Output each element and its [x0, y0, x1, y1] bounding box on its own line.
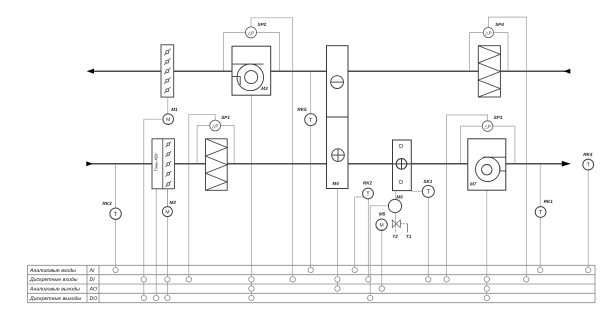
- node AI RK3: [113, 267, 118, 272]
- svg-text:RK4: RK4: [583, 152, 593, 157]
- node AO M4: [335, 286, 340, 291]
- wire RK3 drop: [115, 164, 117, 268]
- node DI RK2: [366, 277, 371, 282]
- svg-text:T2: T2: [392, 234, 398, 239]
- node DO heater: [154, 295, 159, 300]
- wire M6 to valve: [395, 213, 397, 233]
- node DO M2: [165, 295, 170, 300]
- wire M2 drop: [166, 189, 168, 295]
- node DI M1: [141, 277, 146, 282]
- arrow supply outlet (right): [562, 161, 571, 167]
- node DI SP1: [186, 277, 191, 282]
- node DI M3: [249, 277, 254, 282]
- svg-text:AO: AO: [89, 286, 98, 292]
- node DI M4: [335, 277, 340, 282]
- wire RK2 left: [355, 197, 364, 267]
- bus AI/DI divider: [28, 274, 596, 276]
- svg-text:△P: △P: [485, 31, 492, 36]
- filter exhaust: [478, 46, 500, 97]
- sensor SP1: [210, 115, 231, 131]
- svg-text:△P: △P: [212, 123, 219, 128]
- node DO M6: [368, 295, 373, 300]
- heater Тэны КВУ: [152, 139, 174, 189]
- svg-text:RK5: RK5: [297, 107, 307, 112]
- wire M3 drop: [250, 95, 252, 295]
- wire heater to M2: [166, 189, 168, 207]
- svg-text:RK3: RK3: [102, 201, 112, 206]
- node DO M3: [249, 295, 254, 300]
- bus DI/AO divider: [28, 283, 596, 285]
- svg-text:T: T: [309, 117, 313, 124]
- wire SP4 signal: [488, 17, 526, 277]
- sensor SP3: [482, 115, 502, 131]
- svg-text:Дискретные входы: Дискретные входы: [29, 277, 78, 283]
- sensor RK4: [583, 152, 594, 170]
- fan M7: [468, 139, 506, 190]
- wire M5 drop: [381, 230, 383, 286]
- bus DO bottom border: [28, 302, 596, 304]
- svg-text:SP2: SP2: [258, 22, 267, 27]
- node DI M2: [165, 277, 170, 282]
- arrow exhaust outlet (left): [87, 69, 94, 74]
- svg-text:T: T: [366, 192, 370, 198]
- wire RK1 drop: [539, 164, 541, 268]
- node AI RK4: [586, 267, 591, 272]
- node DI SP2: [290, 277, 295, 282]
- node AO M3: [249, 286, 254, 291]
- sensor RK3: [102, 201, 121, 219]
- wire RK2 drop: [367, 199, 369, 277]
- svg-text:T: T: [586, 163, 590, 169]
- svg-text:RK1: RK1: [544, 199, 554, 204]
- svg-text:T1: T1: [406, 234, 412, 239]
- node AO M7: [484, 286, 489, 291]
- svg-text:M5: M5: [379, 211, 386, 216]
- svg-text:DI: DI: [90, 277, 96, 283]
- sensor RK1: [535, 199, 553, 218]
- node DO M7: [484, 295, 489, 300]
- node DO M1: [141, 295, 146, 300]
- node DI SP3: [444, 277, 449, 282]
- svg-text:SP4: SP4: [495, 22, 504, 27]
- filter supply: [206, 139, 228, 191]
- arrow exhaust inlet (right): [564, 69, 571, 74]
- motor M1: [163, 107, 178, 126]
- table right border: [594, 265, 596, 302]
- wire SP1 signal: [189, 114, 215, 276]
- node AI RK1: [538, 267, 543, 272]
- svg-text:DO: DO: [90, 296, 98, 302]
- sensor SP4: [483, 22, 504, 38]
- sensor RK5: [297, 107, 316, 126]
- svg-text:M2: M2: [170, 200, 177, 205]
- svg-text:Тэны КВУ: Тэны КВУ: [153, 151, 158, 171]
- heat coil / valve body: [393, 140, 412, 191]
- wire SP2 left tap: [224, 32, 246, 71]
- wire M1 horizontal+drop: [144, 119, 163, 295]
- svg-text:M1: M1: [171, 107, 178, 112]
- svg-text:T: T: [426, 189, 430, 196]
- svg-text:T: T: [539, 210, 543, 216]
- table abbr divider: [98, 265, 100, 302]
- wire M7 drop: [486, 190, 488, 295]
- motor M2: [162, 200, 176, 218]
- node AO M5: [379, 286, 384, 291]
- wire SP4 right tap: [494, 33, 509, 72]
- valve 3-way: [392, 220, 407, 233]
- node DI SP4: [524, 277, 529, 282]
- svg-text:AI: AI: [89, 268, 95, 274]
- wire RK4 drop: [587, 170, 589, 267]
- wire M4 drop: [336, 189, 338, 286]
- table label divider: [86, 265, 88, 302]
- wire supply duct: [88, 163, 563, 165]
- svg-text:△P: △P: [484, 124, 491, 129]
- node AI RK2: [352, 267, 357, 272]
- svg-text:△P: △P: [248, 30, 255, 35]
- pump M5: [376, 211, 387, 231]
- svg-text:M7: M7: [470, 181, 477, 186]
- wire SP2 right tap: [257, 32, 280, 71]
- wire exhaust duct: [90, 70, 570, 72]
- table left border: [27, 265, 29, 302]
- wire RK5 drop: [310, 71, 312, 267]
- wire M6 left: [370, 206, 388, 295]
- wire SP3 signal: [447, 115, 488, 277]
- sensor RK2: [363, 181, 374, 199]
- wire SP4 left tap: [470, 33, 484, 72]
- arrow supply inlet (left): [86, 161, 92, 166]
- wire valve to M6: [395, 191, 397, 200]
- node AI RK5: [308, 267, 313, 272]
- valve actuator M6: [388, 195, 403, 213]
- sensor SK1: [422, 179, 434, 197]
- sensor SP2: [246, 22, 267, 38]
- fan M3: [232, 46, 271, 95]
- bus AO/DO divider: [28, 292, 596, 294]
- wire SP3 left tap: [461, 126, 483, 164]
- wire SP2 signal: [251, 18, 293, 277]
- wire SP1 right tap: [221, 126, 235, 164]
- svg-text:M6: M6: [396, 195, 403, 200]
- svg-text:M3: M3: [261, 86, 268, 91]
- wire SP3 right tap: [493, 126, 515, 164]
- bus AI line (top border): [28, 264, 596, 266]
- wire SP1 left tap: [197, 126, 210, 164]
- svg-text:T: T: [114, 211, 118, 218]
- wire SK1 left: [411, 190, 422, 192]
- svg-text:RK2: RK2: [363, 181, 373, 186]
- node DI SK1: [426, 277, 431, 282]
- wire damper to M1: [167, 97, 169, 114]
- svg-text:Аналоговые выходы: Аналоговые выходы: [29, 286, 80, 292]
- node DI M7: [484, 277, 489, 282]
- svg-text:SP3: SP3: [494, 115, 503, 120]
- svg-text:Аналоговые входы: Аналоговые входы: [29, 268, 76, 274]
- recuperator M4: [327, 46, 349, 189]
- svg-text:M4: M4: [332, 181, 339, 186]
- svg-text:SK1: SK1: [423, 179, 432, 184]
- damper exhaust: [161, 45, 174, 97]
- wire heater stage drop: [155, 189, 157, 295]
- svg-text:SP1: SP1: [221, 115, 230, 120]
- svg-text:Дискретные выходы: Дискретные выходы: [29, 296, 81, 302]
- wire SK1 drop: [427, 197, 429, 276]
